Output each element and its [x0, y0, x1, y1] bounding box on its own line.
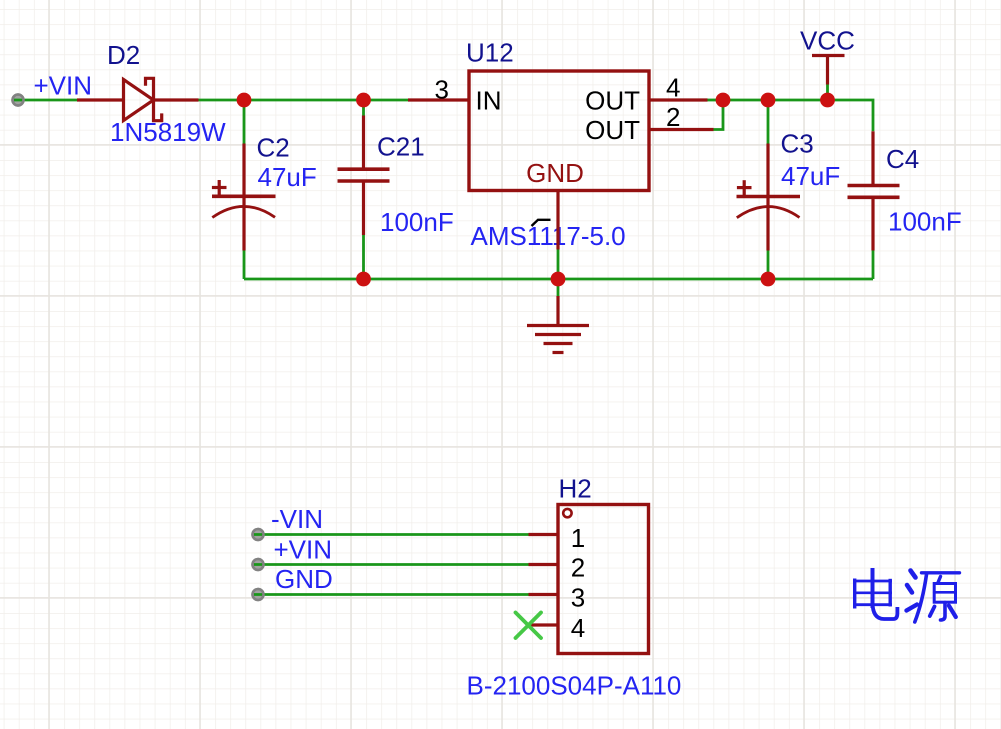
svg-text:2: 2	[571, 553, 585, 583]
junction pin4 node	[716, 93, 731, 108]
svg-text:OUT: OUT	[585, 115, 640, 145]
ground symbol	[527, 296, 589, 353]
svg-text:IN: IN	[476, 85, 502, 115]
svg-text:C3: C3	[781, 129, 814, 159]
junction ground C21	[356, 272, 371, 287]
capacitor C4	[848, 131, 900, 250]
svg-text:-VIN: -VIN	[271, 504, 323, 534]
U12 pin 3	[408, 98, 469, 101]
svg-text:C2: C2	[257, 132, 290, 162]
svg-text:1N5819W: 1N5819W	[110, 117, 226, 147]
port terminal GND	[253, 589, 264, 600]
wire C21 node to U12 pin3	[364, 99, 409, 102]
wire pin2 up to output node	[714, 100, 724, 130]
svg-text:100nF: 100nF	[380, 207, 454, 237]
junction C3 node	[761, 93, 776, 108]
wire GND pin to ground net	[557, 250, 560, 280]
svg-text:3: 3	[435, 75, 449, 105]
junction at C2	[237, 93, 252, 108]
U12 GND pin	[556, 191, 559, 250]
IC U12 body	[469, 71, 649, 191]
wire C2 node to C21 node	[244, 99, 364, 102]
svg-text:VCC: VCC	[800, 26, 855, 56]
port terminal ring	[13, 95, 24, 106]
svg-text:4: 4	[571, 613, 585, 643]
wire -VIN	[254, 533, 529, 536]
port terminal +VIN2	[253, 559, 264, 570]
text 电	[853, 568, 897, 619]
port ring GND2	[253, 589, 264, 600]
svg-text:4: 4	[666, 72, 680, 102]
wire ground net	[244, 278, 873, 281]
text 源	[907, 571, 960, 623]
svg-text:GND: GND	[526, 158, 584, 188]
wire pin4 to output node	[708, 99, 724, 102]
port ring -VIN	[253, 529, 264, 540]
wire +VIN to D2	[14, 99, 77, 102]
wire C21 node down	[362, 100, 365, 116]
power flag VCC	[812, 56, 845, 85]
svg-text:47uF: 47uF	[781, 161, 840, 191]
junction ground GND	[551, 272, 566, 287]
svg-text:C21: C21	[377, 131, 425, 161]
diode D2 1N5819W	[77, 78, 199, 120]
capacitor C2 polarized	[212, 144, 276, 251]
port terminal -VIN	[253, 529, 264, 540]
junction at C21	[356, 93, 371, 108]
port ring +VIN2	[253, 559, 264, 570]
wire ground stub	[557, 279, 560, 296]
svg-text:U12: U12	[466, 38, 514, 68]
no-connect X on pin 4	[516, 613, 542, 639]
svg-text:GND: GND	[275, 564, 333, 594]
U12 pin 2	[649, 128, 714, 131]
wire D2 to C2 node	[199, 99, 245, 102]
wire output node to C3	[723, 99, 768, 102]
wire +VIN2	[254, 563, 529, 566]
junction ground C3	[761, 272, 776, 287]
svg-text:B-2100S04P-A110: B-2100S04P-A110	[467, 670, 682, 700]
capacitor C21	[338, 116, 390, 236]
svg-text:OUT: OUT	[585, 85, 640, 115]
svg-text:+VIN: +VIN	[274, 534, 333, 564]
svg-text:3: 3	[571, 583, 585, 613]
wire VCC node to C4	[828, 100, 874, 131]
connector H2 body	[558, 505, 649, 654]
U12 pin 4	[649, 98, 708, 101]
H2 pin1 indicator circle	[563, 509, 571, 517]
H2 pin 4	[529, 623, 558, 626]
wire VCC stem	[826, 85, 829, 101]
H2 pin 1	[529, 533, 559, 536]
wire GND2	[254, 593, 529, 596]
svg-text:D2: D2	[107, 40, 140, 70]
H2 pin 2	[529, 563, 559, 566]
wire C2 node down	[243, 100, 246, 144]
svg-text:2: 2	[666, 102, 680, 132]
svg-text:C4: C4	[886, 144, 919, 174]
H2 pin 3	[529, 593, 559, 596]
wire C4 to ground net	[872, 251, 875, 280]
wire C3 to ground net	[767, 251, 770, 280]
svg-text:47uF: 47uF	[258, 162, 317, 192]
port terminal +VIN	[13, 95, 24, 106]
svg-text:H2: H2	[559, 474, 592, 504]
wire C3 node down	[767, 100, 770, 144]
wire C21 to ground net	[362, 235, 365, 279]
svg-text:+VIN: +VIN	[34, 71, 93, 101]
svg-text:1: 1	[571, 523, 585, 553]
junction VCC node	[820, 93, 835, 108]
svg-text:AMS1117-5.0: AMS1117-5.0	[471, 221, 626, 251]
wire C3 to VCC node	[768, 99, 828, 102]
svg-text:100nF: 100nF	[888, 206, 962, 236]
U12 GND pin decoration	[532, 220, 551, 226]
capacitor C3 polarized	[737, 144, 801, 251]
wire C2 to ground net	[243, 251, 246, 280]
